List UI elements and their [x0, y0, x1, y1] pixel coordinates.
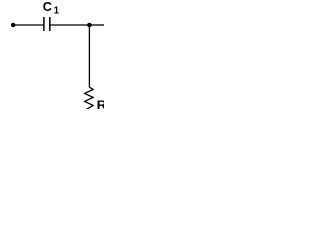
capacitor C1 right plate [49, 17, 51, 31]
node A (left terminal dot) [11, 23, 16, 28]
wire (junction to right edge) [89, 24, 104, 26]
svg-text:1: 1 [54, 6, 60, 17]
wire (left terminal to C1 left plate) [13, 24, 43, 26]
svg-text:R: R [97, 98, 104, 109]
wire (junction down to resistor R) [88, 25, 90, 87]
wire (C1 right plate to junction) [50, 24, 89, 26]
svg-text:C: C [43, 0, 52, 14]
junction node dot [87, 23, 92, 28]
resistor R zigzag (clipped at bottom) [85, 87, 93, 110]
capacitor C1 left plate [43, 17, 45, 31]
